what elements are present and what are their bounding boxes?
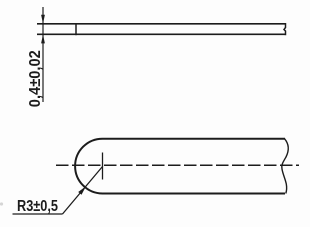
plan view break line (right end) — [282, 139, 289, 194]
side view left end face — [75, 23, 77, 35]
centerline — [56, 164, 299, 166]
side view bottom edge with extension line — [37, 33, 285, 35]
dimension line for thickness — [42, 7, 44, 102]
svg-text:0,4±0,02: 0,4±0,02 — [27, 50, 44, 107]
side view break line (right end) — [284, 23, 286, 35]
center mark vertical tick — [102, 153, 104, 180]
leader shoulder underline — [13, 213, 63, 215]
side view top edge with extension line — [37, 23, 285, 25]
dimension arrowhead lower — [41, 35, 45, 44]
plan view outline with rounded end — [75, 139, 285, 194]
leader line to radius — [63, 167, 103, 215]
svg-text:R3±0,5: R3±0,5 — [17, 198, 58, 215]
dimension arrowhead upper — [41, 15, 45, 24]
scan speck — [0, 202, 3, 205]
leader arrowhead on arc — [78, 186, 86, 195]
